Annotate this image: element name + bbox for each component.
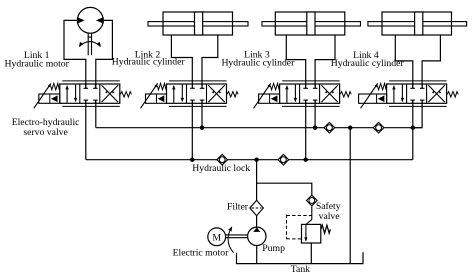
safety valve RV1: internal flow arrow bbox=[304, 224, 307, 241]
hydraulic cylinder C2: body bbox=[163, 12, 233, 35]
servo valve V3: left spring bbox=[270, 83, 279, 90]
safety valve RV1: pilot dashed line bbox=[287, 215, 312, 239]
svg-text:M: M bbox=[212, 232, 221, 243]
servo valve V3: proportional arrow bbox=[254, 83, 272, 108]
wire: tank return drop line bbox=[349, 128, 351, 264]
servo valve V4: servo overline bbox=[389, 80, 447, 82]
electric motor M2: circle bbox=[208, 228, 226, 246]
wire: motor left pipe loop bbox=[64, 20, 86, 88]
svg-text:Hydraulic cylinder: Hydraulic cylinder bbox=[112, 57, 186, 68]
servo valve V2: proportional arrow bbox=[141, 83, 159, 108]
hydraulic motor M1: output shaft bbox=[88, 33, 91, 55]
servo valve V2: servo underline bbox=[169, 105, 227, 107]
servo valve V2: left cell parallel arrows bbox=[172, 85, 184, 103]
wire: V1 port A down to pressure bus bbox=[85, 100, 87, 160]
servo valve V3: body bbox=[280, 84, 340, 103]
servo valve V1: body bbox=[60, 84, 120, 103]
hydraulic cylinder C3: rod bbox=[262, 22, 361, 26]
svg-text:servo valve: servo valve bbox=[23, 127, 67, 138]
servo valve V1: left cell parallel arrows bbox=[65, 85, 77, 103]
servo valve V1: center cell blocked ports bbox=[84, 84, 98, 103]
junction: V3 port A on pressure bus bbox=[304, 158, 308, 162]
servo valve V1: solenoid triangle bbox=[51, 95, 58, 102]
wire: filter to pump bbox=[256, 216, 258, 228]
hydraulic cylinder C3: body bbox=[275, 12, 345, 35]
servo valve V4: proportional arrow bbox=[361, 83, 379, 108]
svg-text:Tank: Tank bbox=[291, 264, 310, 275]
servo valve V3: left cell parallel arrows bbox=[285, 85, 297, 103]
servo valve V4: right cell crossed arrows bbox=[428, 85, 444, 102]
servo valve V1: right spring bbox=[120, 92, 131, 97]
svg-text:Hydraulic cylinder: Hydraulic cylinder bbox=[331, 58, 405, 69]
junction: V2 port A on pressure bus bbox=[190, 158, 194, 162]
servo valve V2: servo overline bbox=[169, 80, 227, 82]
servo valve V2: right spring bbox=[227, 92, 238, 97]
wire: V2 port A down to pressure bus bbox=[191, 100, 193, 160]
servo valve V4: left spring bbox=[377, 83, 386, 90]
hydraulic cylinder C2: rod bbox=[148, 22, 248, 26]
shaft: motor to pump coupling bbox=[226, 235, 248, 238]
hydraulic cylinder C2: left port pipe bbox=[171, 35, 192, 88]
servo valve V3: center cell blocked ports bbox=[303, 84, 317, 103]
safety valve RV1: body bbox=[302, 224, 321, 243]
svg-text:Hydraulic lock: Hydraulic lock bbox=[192, 163, 250, 174]
hydraulic cylinder C4: rod bbox=[368, 22, 467, 26]
wire: V4 port B down to tank bus bbox=[413, 100, 422, 128]
wire: safety valve branch bbox=[257, 183, 312, 195]
check valve CV4 (hydraulic lock) bbox=[373, 122, 384, 133]
servo valve V4: solenoid triangle bbox=[378, 95, 385, 102]
wire: safety valve drain to tank bbox=[310, 243, 312, 264]
wire: V3 port B down to tank bus bbox=[314, 100, 316, 128]
wire: check valve to safety valve inlet bbox=[306, 205, 312, 224]
shaft rotation arrow bbox=[228, 226, 234, 252]
junction: tank drop line on tank bus bbox=[348, 126, 352, 130]
junction: V3 port B on tank bus bbox=[313, 126, 317, 130]
svg-text:Hydraulic motor: Hydraulic motor bbox=[5, 59, 70, 70]
svg-text:Filter: Filter bbox=[227, 202, 249, 213]
check valve CV5 (safety branch) bbox=[307, 195, 318, 206]
hydraulic cylinder C3: right port pipe bbox=[315, 35, 335, 88]
wire: V3 port A down to pressure bus bbox=[305, 100, 307, 160]
servo valve V4: body bbox=[387, 84, 447, 103]
wire: V4 port A down to pressure bus bbox=[412, 100, 414, 160]
servo valve V3: right spring bbox=[340, 92, 351, 97]
junction: V2 port B on tank bus bbox=[200, 126, 204, 130]
servo valve V4: left cell parallel arrows bbox=[392, 85, 404, 103]
servo valve V1: left spring bbox=[51, 83, 60, 90]
safety valve RV1: spring bbox=[321, 225, 331, 233]
servo valve V1: right cell crossed arrows bbox=[102, 85, 118, 102]
hydraulic motor M1: rotation arrow bbox=[79, 42, 101, 48]
servo valve V3: right cell crossed arrows bbox=[321, 85, 337, 102]
servo valve V3: servo overline bbox=[282, 80, 340, 82]
check valve CV2 (hydraulic lock) bbox=[278, 154, 289, 165]
svg-text:Electric motor: Electric motor bbox=[173, 248, 229, 259]
servo valve V2: solenoid triangle bbox=[158, 95, 165, 102]
servo valve V2: center cell blocked ports bbox=[190, 84, 204, 103]
svg-text:valve: valve bbox=[319, 211, 340, 222]
servo valve V3: solenoid triangle bbox=[271, 95, 278, 102]
svg-text:Hydraulic cylinder: Hydraulic cylinder bbox=[221, 57, 295, 68]
hydraulic motor M1: shaft crossbar bbox=[88, 36, 93, 38]
hydraulic motor M1: right flow triangle bbox=[96, 17, 104, 24]
servo valve V2: proportional solenoid box bbox=[146, 94, 167, 103]
servo valve V2: body bbox=[167, 84, 227, 103]
servo valve V4: right spring bbox=[447, 92, 458, 97]
servo valve V3: proportional solenoid box bbox=[259, 94, 280, 103]
wire: pump riser upper segment bbox=[256, 160, 258, 201]
servo valve V1: servo overline bbox=[62, 80, 120, 82]
wire: V1 port B down to tank bus bbox=[95, 100, 97, 128]
hydraulic cylinder C2: piston bbox=[195, 12, 203, 35]
hydraulic cylinder C4: right port pipe bbox=[422, 35, 440, 88]
servo valve V1: servo underline bbox=[62, 105, 120, 107]
servo valve V4: proportional solenoid box bbox=[359, 94, 387, 103]
wire: motor right pipe loop bbox=[96, 20, 113, 88]
hydraulic cylinder C3: left port pipe bbox=[286, 35, 305, 88]
hydraulic motor M1: left flow triangle bbox=[77, 17, 85, 24]
servo valve V3: servo underline bbox=[282, 105, 340, 107]
servo valve V1: proportional arrow bbox=[34, 83, 52, 108]
wire: pump suction to tank bbox=[256, 246, 258, 264]
check valve CV3 (hydraulic lock) bbox=[324, 122, 335, 133]
servo valve V4: servo underline bbox=[389, 105, 447, 107]
junction: pump riser on pressure bus bbox=[254, 158, 258, 162]
wire: pressure bus bbox=[86, 159, 413, 161]
svg-text:Pump: Pump bbox=[262, 243, 285, 254]
wire: V2 port B down to tank bus bbox=[201, 100, 203, 128]
hydraulic cylinder C4: piston bbox=[415, 12, 423, 35]
hydraulic cylinder C4: body bbox=[382, 12, 452, 35]
hydraulic motor M1: circle bbox=[77, 7, 103, 33]
pump P1: circle bbox=[248, 227, 266, 245]
check valve CV1 (hydraulic lock) bbox=[217, 154, 228, 165]
hydraulic cylinder C3: piston bbox=[307, 12, 315, 35]
servo valve V2: right cell crossed arrows bbox=[208, 85, 224, 102]
tank T1 bbox=[237, 252, 364, 263]
junction: V4 port A crossing tank bus bbox=[411, 126, 415, 130]
hydraulic cylinder C4: left port pipe bbox=[395, 35, 413, 88]
pump P1: outlet triangle bbox=[253, 227, 260, 232]
servo valve V2: left spring bbox=[157, 83, 166, 90]
hydraulic cylinder C2: right port pipe bbox=[202, 35, 218, 88]
servo valve V4: center cell blocked ports bbox=[410, 84, 424, 103]
wire: tank return bus bbox=[96, 127, 422, 129]
servo valve V1: proportional solenoid box bbox=[39, 94, 60, 103]
filter F1 bbox=[250, 200, 264, 215]
